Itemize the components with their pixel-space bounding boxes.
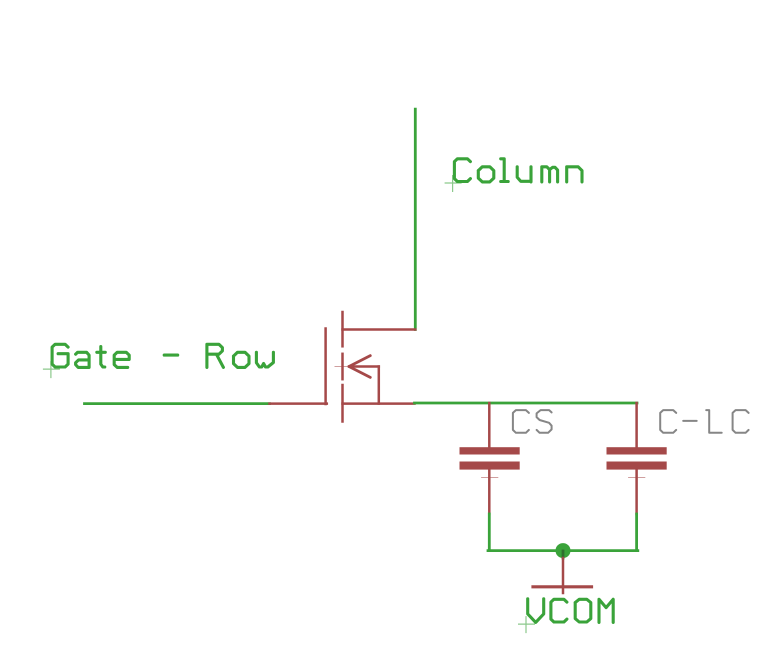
label CS bbox=[513, 410, 552, 433]
capacitor C-LC thin pin mark bbox=[629, 477, 645, 479]
capacitor C-LC top lead bbox=[635, 403, 638, 449]
VCOM supply stem bbox=[562, 558, 565, 593]
wire: C-LC lower vertical (green) bbox=[635, 514, 638, 551]
transistor Q1 thin substrate pin mark bbox=[335, 366, 349, 368]
capacitor CS top lead bbox=[488, 403, 491, 449]
wire: Gate - Row net horizontal (green) bbox=[85, 402, 270, 405]
transistor Q1 source lead (red) bbox=[343, 402, 415, 405]
transistor Q1 channel segment top bbox=[341, 312, 344, 346]
transistor Q1 channel segment bottom bbox=[341, 385, 344, 422]
label C-LC bbox=[660, 410, 748, 433]
node Column origin cross bbox=[445, 175, 462, 192]
capacitor CS bottom plate bbox=[460, 462, 520, 470]
transistor Q1 substrate lead vertical bbox=[378, 367, 381, 404]
transistor Q1 gate bar bbox=[324, 329, 327, 405]
wire: Column net vertical bbox=[414, 109, 417, 329]
transistor Q1 drain lead bbox=[343, 328, 416, 331]
capacitor CS bottom lead (red) bbox=[488, 470, 491, 514]
label Gate - Row bbox=[52, 344, 273, 367]
capacitor CS thin pin mark bbox=[482, 477, 498, 479]
wire: pixel node horizontal (green) bbox=[415, 402, 638, 405]
capacitor C-LC bottom plate bbox=[607, 462, 667, 470]
transistor Q1 substrate arrow bbox=[349, 356, 370, 378]
junction dot bbox=[556, 543, 571, 558]
label VCOM bbox=[528, 599, 614, 623]
node Gate - Row origin cross bbox=[43, 361, 60, 378]
junction dot overlap stub bbox=[562, 551, 565, 558]
transistor Q1 substrate lead horizontal bbox=[349, 365, 379, 368]
capacitor C-LC top plate bbox=[607, 447, 667, 454]
capacitor CS top plate bbox=[460, 447, 520, 454]
capacitor C-LC bottom lead (red) bbox=[635, 470, 638, 514]
transistor Q1 gate lead wire (red) bbox=[270, 402, 327, 405]
label Column bbox=[454, 159, 582, 182]
VCOM supply bar bbox=[533, 585, 592, 588]
transistor Q1 channel segment middle bbox=[341, 354, 344, 379]
wire: bottom VCOM horizontal (green) bbox=[488, 549, 638, 552]
wire: CS lower vertical (green) bbox=[488, 514, 491, 551]
node VCOM origin cross bbox=[518, 616, 535, 633]
